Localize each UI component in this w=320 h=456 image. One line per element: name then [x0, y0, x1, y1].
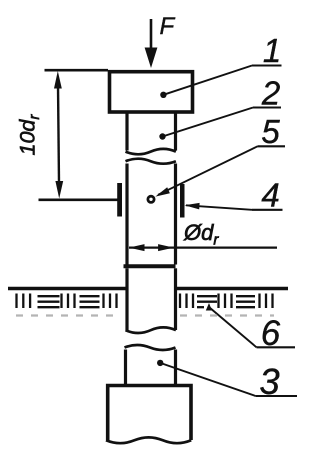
soil hatch left	[17, 294, 117, 309]
left flange 4	[117, 183, 122, 217]
middle rod edges	[127, 164, 176, 265]
middle rod: wavy top	[126, 159, 176, 164]
faint secondary soil hatch row (scan ghost) left	[16, 314, 118, 316]
lower rod section (below ground break)	[125, 345, 176, 384]
rod section 2 (upper rod)	[126, 114, 176, 155]
diameter dimension line with arrowheads	[129, 244, 277, 251]
svg-text:6: 6	[261, 314, 281, 353]
ground line left	[8, 287, 126, 290]
leader arrow to flange (label 4)	[185, 203, 283, 210]
leader to label 1	[160, 66, 281, 99]
svg-text:4: 4	[261, 177, 279, 214]
ground line right	[177, 287, 288, 290]
coupler joint line	[124, 264, 176, 268]
force arrow F	[145, 19, 158, 68]
leader arrow to soil hatch (label 6)	[206, 303, 295, 347]
rod below coupler	[126, 268, 176, 333]
svg-text:2: 2	[261, 75, 280, 112]
tip block 3	[106, 386, 191, 444]
leader to label 3	[157, 360, 297, 396]
extension line bottom (flange level)	[39, 199, 121, 202]
svg-text:10dr: 10dr	[16, 114, 44, 156]
extension line top (block top level)	[45, 69, 109, 72]
hammer hole circle 5	[148, 196, 154, 202]
faint secondary soil hatch row (scan ghost) right	[180, 314, 274, 316]
svg-text:3: 3	[259, 361, 279, 402]
svg-text:F: F	[160, 13, 176, 40]
soil hatch right	[180, 294, 273, 309]
right flange 4	[180, 184, 185, 218]
svg-text:1: 1	[263, 32, 281, 69]
svg-text:5: 5	[261, 113, 280, 150]
leader to label 2	[159, 108, 281, 140]
leader arrow to circle (label 5)	[155, 146, 285, 196]
dimension line 10dr with arrowheads	[54, 71, 63, 199]
anvil block 1	[110, 72, 193, 112]
